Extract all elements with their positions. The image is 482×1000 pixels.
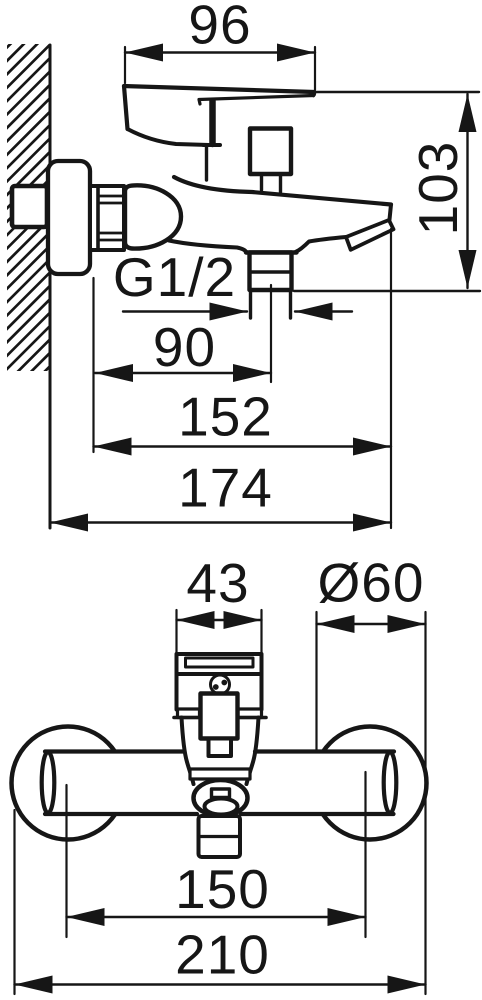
wall escutcheon (side view) bbox=[48, 161, 90, 274]
svg-text:152: 152 bbox=[178, 386, 273, 448]
svg-text:Ø60: Ø60 bbox=[318, 552, 425, 614]
dimension 150: extension lines bbox=[65, 785, 67, 937]
diverter collar band bbox=[190, 769, 250, 779]
shower outlet square bbox=[250, 253, 292, 291]
spout tip face bbox=[390, 205, 392, 220]
dimension 90: line and arrows bbox=[95, 372, 271, 374]
dimension 174: line and arrows bbox=[50, 521, 391, 523]
svg-text:210: 210 bbox=[175, 924, 270, 986]
spout top tab bbox=[212, 789, 230, 798]
body right side contour bbox=[247, 718, 259, 785]
tube body fill bbox=[45, 752, 394, 815]
body bell (left end of faucet body) bbox=[125, 185, 181, 248]
svg-text:96: 96 bbox=[188, 0, 251, 56]
svg-text:174: 174 bbox=[178, 457, 273, 519]
dimension 96: extension lines bbox=[124, 47, 126, 83]
left wall escutcheon circle bbox=[12, 727, 125, 840]
spout mouth inner ellipse bbox=[205, 799, 238, 815]
cartridge left edge bbox=[205, 146, 208, 180]
svg-text:43: 43 bbox=[186, 552, 249, 614]
tube top edge bbox=[45, 749, 394, 753]
diverter knob neck bbox=[262, 174, 281, 192]
lever handle top line bbox=[124, 86, 314, 92]
spout tip extension line (for 152 and 174) bbox=[390, 229, 392, 528]
aerator at spout tip bbox=[346, 220, 394, 250]
body bottom contour right bbox=[296, 237, 347, 252]
handle block sides (also 43 extension lines) bbox=[175, 610, 177, 710]
shower hose outlet inner line bbox=[199, 835, 241, 838]
wall face line (also 174 left extension) bbox=[49, 45, 52, 528]
handle top recess bbox=[186, 658, 254, 667]
wall hatching bbox=[0, 0, 443, 420]
spout top contour bbox=[174, 177, 391, 205]
handle top block bbox=[177, 654, 262, 674]
handle stem lower bbox=[209, 739, 232, 757]
handle base left foot bbox=[178, 709, 200, 718]
body bottom contour left bbox=[169, 241, 247, 253]
dimension D60: line and arrows bbox=[317, 623, 426, 625]
lever stem bbox=[209, 101, 216, 144]
dimension D60: extension lines bbox=[315, 612, 317, 750]
tube right end cap bbox=[384, 752, 397, 813]
in-wall mounting block bbox=[12, 186, 47, 227]
dimension 103: bottom reference line bbox=[294, 290, 480, 292]
right wall escutcheon circle bbox=[314, 727, 427, 840]
lever handle right end cap bbox=[312, 92, 316, 96]
handle base block bbox=[177, 674, 262, 710]
dimension 210: line and arrows bbox=[15, 983, 426, 985]
svg-text:103: 103 bbox=[407, 141, 469, 236]
tube bottom edge bbox=[45, 812, 394, 816]
tube left end cap bbox=[42, 752, 55, 813]
dimension 96: line and arrows bbox=[125, 51, 315, 53]
dimension 103: top reference line bbox=[313, 91, 479, 93]
dimension G1/2: left line and arrow bbox=[123, 310, 247, 312]
body top line bbox=[174, 716, 266, 720]
dimension 210: left extension line bbox=[13, 810, 15, 994]
spout outer ellipse bbox=[194, 780, 248, 816]
svg-text:G1/2: G1/2 bbox=[113, 246, 236, 308]
lever handle underside bbox=[199, 96, 314, 105]
dimension G1/2: right line and arrow bbox=[295, 310, 352, 312]
indicator dot halves bbox=[213, 684, 219, 690]
body left side contour bbox=[182, 718, 194, 785]
svg-text:150: 150 bbox=[175, 858, 270, 920]
shower hose outlet block bbox=[199, 816, 241, 857]
lever head left edge bbox=[124, 86, 128, 129]
svg-text:90: 90 bbox=[153, 316, 216, 378]
lever head bottom bbox=[128, 129, 210, 145]
union nut bbox=[90, 186, 124, 250]
shower outlet inner line bbox=[252, 270, 290, 274]
diverter knob (square on top) bbox=[250, 129, 291, 175]
shower nipple sides bbox=[251, 290, 291, 318]
indicator dot circle bbox=[211, 675, 230, 694]
shower outlet centerline bbox=[270, 285, 272, 382]
handle stem front bbox=[201, 694, 238, 739]
dimension 150: line and arrows bbox=[67, 916, 366, 918]
dimension 43: line and arrows bbox=[177, 619, 262, 621]
cartridge step bbox=[204, 143, 221, 147]
dimension 103: line and arrows bbox=[466, 94, 468, 288]
handle base right foot bbox=[238, 709, 262, 718]
dimension 152: line and arrows bbox=[94, 445, 392, 447]
escutcheon face extension line (for 90 and 152) bbox=[92, 278, 94, 452]
shower outlet square flange line bbox=[246, 250, 297, 254]
